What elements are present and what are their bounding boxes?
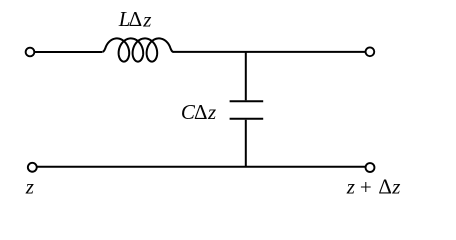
capacitor bottom plate <box>230 118 264 120</box>
wire vertical lower (capacitor to bottom wire) <box>245 120 247 167</box>
svg-text:z: z <box>25 175 34 199</box>
terminal top-left <box>26 48 35 57</box>
terminal bottom-right <box>366 163 375 172</box>
capacitor top plate <box>230 100 264 102</box>
svg-text:z: z <box>207 100 216 124</box>
svg-text:Δ: Δ <box>129 7 143 31</box>
terminal bottom-left <box>28 163 37 172</box>
svg-text:z: z <box>142 7 151 31</box>
label LΔz <box>118 7 152 31</box>
terminal top-right <box>366 47 375 56</box>
svg-text:+: + <box>360 175 372 199</box>
svg-text:Δ: Δ <box>378 174 392 198</box>
wire bottom <box>37 166 365 168</box>
svg-text:z: z <box>391 174 400 198</box>
svg-text:Δ: Δ <box>194 100 208 124</box>
label z + Δz (right) <box>346 174 401 199</box>
svg-text:z: z <box>346 174 355 198</box>
wire top-left segment <box>35 51 102 53</box>
inductor L (coil) <box>102 38 173 61</box>
label CΔz <box>181 100 216 124</box>
wire vertical upper (node to capacitor) <box>245 52 247 100</box>
wire top-right segment <box>173 51 365 53</box>
